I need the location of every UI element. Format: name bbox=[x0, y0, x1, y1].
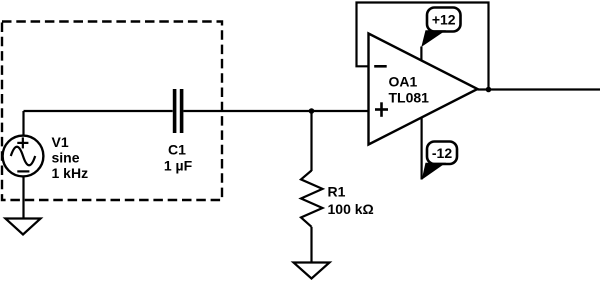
-12 supply callout bbox=[422, 142, 457, 180]
svg-text:100 kΩ: 100 kΩ bbox=[328, 201, 374, 217]
svg-text:-12: -12 bbox=[432, 145, 452, 161]
node B (output / feedback junction) bbox=[486, 87, 492, 93]
svg-text:1 µF: 1 µF bbox=[164, 158, 193, 174]
ground (under V1) bbox=[5, 219, 40, 235]
svg-text:+12: +12 bbox=[432, 12, 456, 28]
wire: feedback from output node around to inverting input bbox=[357, 3, 489, 90]
dashed box (source sub-circuit boundary) bbox=[2, 22, 222, 201]
node A (junction of C1, R1, op-amp input) bbox=[309, 108, 315, 114]
svg-text:OA1: OA1 bbox=[389, 74, 418, 90]
wire: V+ supply stub on top edge of op-amp bbox=[420, 47, 422, 62]
resistor R1 bbox=[301, 171, 323, 227]
op-amp labels OA1 / TL081 bbox=[389, 74, 430, 106]
op-amp inverting input symbol (minus) bbox=[374, 65, 387, 68]
svg-text:TL081: TL081 bbox=[389, 90, 430, 106]
svg-text:1 kHz: 1 kHz bbox=[52, 165, 89, 181]
wire: main signal from V1 to capacitor left plate bbox=[24, 110, 173, 112]
wire: V1 bottom stem to ground bbox=[22, 176, 24, 220]
ground (under R1) bbox=[294, 263, 330, 279]
wire: V- supply stub on bottom edge of op-amp bbox=[421, 118, 423, 180]
+12 supply callout bbox=[421, 8, 460, 48]
wire: capacitor right plate to op-amp non-inverting input bbox=[183, 110, 368, 112]
wire: op-amp output to right edge bbox=[478, 88, 600, 90]
capacitor C1 bbox=[175, 89, 182, 133]
C1 value labels bbox=[164, 142, 193, 174]
svg-text:R1: R1 bbox=[328, 184, 346, 200]
svg-text:sine: sine bbox=[52, 150, 80, 166]
R1 value labels bbox=[328, 184, 374, 218]
V1 labels bbox=[52, 134, 89, 181]
svg-text:V1: V1 bbox=[52, 134, 69, 150]
voltage source V1 bbox=[3, 136, 44, 177]
op-amp OA1 (triangle body) bbox=[369, 34, 478, 145]
op-amp non-inverting input symbol (plus) bbox=[375, 102, 388, 117]
wire: R1 top stem from node bbox=[310, 111, 312, 171]
wire: V1 top stem bbox=[22, 111, 24, 137]
wire: R1 bottom stem to ground bbox=[310, 227, 312, 263]
svg-text:C1: C1 bbox=[168, 142, 186, 158]
